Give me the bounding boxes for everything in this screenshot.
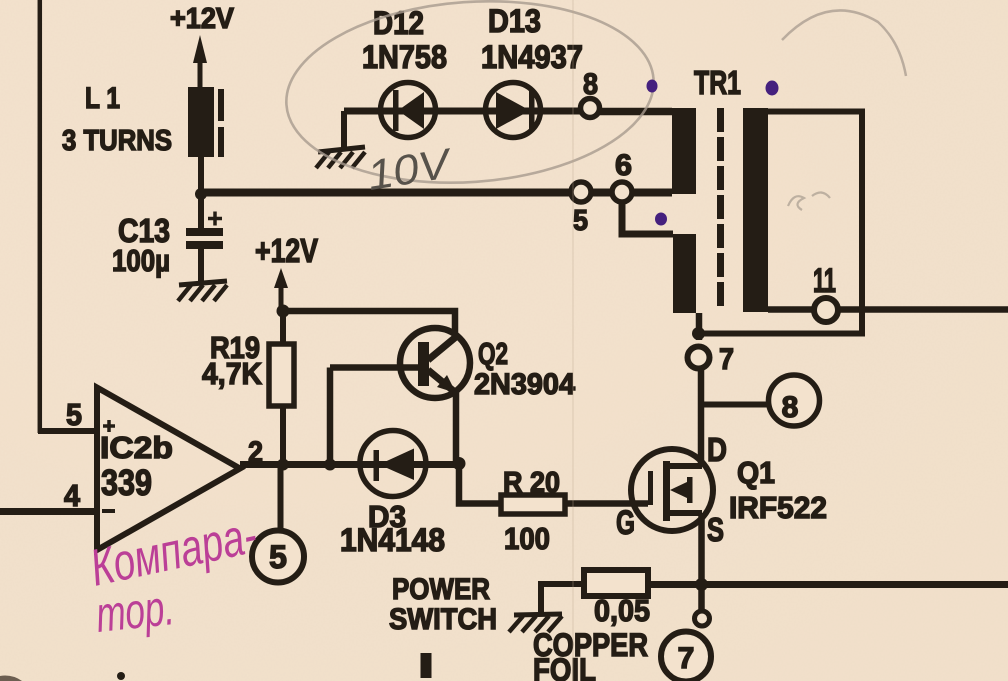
wire: node 6 step down bbox=[622, 202, 673, 234]
svg-text:5: 5 bbox=[66, 397, 82, 432]
node: Q2 base branch junction bbox=[324, 459, 336, 471]
svg-text:4,7K: 4,7K bbox=[202, 356, 263, 391]
svg-text:7: 7 bbox=[678, 642, 695, 675]
wire: base branch vertical bbox=[327, 368, 334, 465]
wire: Q2 base lead bbox=[330, 364, 420, 371]
switch tick mark bbox=[421, 653, 432, 678]
wire: junction down to bubble 5 bbox=[278, 464, 284, 531]
MOSFET Q1 circle bbox=[631, 449, 713, 531]
svg-text:5: 5 bbox=[269, 539, 287, 575]
svg-text:7: 7 bbox=[719, 343, 734, 376]
diode D12 triangle bbox=[398, 92, 424, 129]
svg-text:2: 2 bbox=[248, 436, 263, 469]
wire: Q2 emitter vertical bbox=[453, 391, 460, 463]
wire: lead to circled 8 bbox=[701, 402, 769, 408]
MOSFET Q1 gate bar bbox=[648, 471, 653, 505]
wire: diode chain horizontal bbox=[344, 108, 580, 115]
wire: elbow to ground bbox=[341, 111, 347, 150]
purple dot lower bbox=[655, 213, 667, 226]
pin bubble 7 bbox=[661, 632, 711, 681]
op-amp plus mark bbox=[103, 420, 115, 432]
MOSFET Q1 source lead inside bbox=[670, 510, 702, 516]
transformer TR1 core dashed line bbox=[717, 108, 724, 311]
svg-text:G: G bbox=[616, 504, 635, 542]
pencil ellipse around diodes bbox=[280, 0, 660, 195]
wire: L1 to junction bbox=[198, 157, 204, 196]
stray dot bottom left bbox=[117, 672, 125, 680]
wire: source vertical bbox=[698, 513, 705, 611]
corner smudge bbox=[0, 676, 22, 681]
svg-text:FOIL: FOIL bbox=[533, 652, 596, 681]
node: L1/C13 junction bbox=[195, 188, 207, 200]
node 7 terminal bbox=[688, 347, 710, 369]
wire: long horizontal to transformer bbox=[201, 189, 672, 197]
transformer TR1 primary top bar bbox=[672, 108, 696, 194]
diode D13 cathode bar bbox=[529, 90, 535, 131]
svg-text:1N758: 1N758 bbox=[362, 39, 447, 75]
op-amp U IC2b triangle bbox=[97, 388, 240, 551]
node: source junction bbox=[695, 578, 708, 591]
svg-text:D13: D13 bbox=[488, 3, 541, 39]
pin bubble 8 bbox=[769, 375, 820, 426]
power +12V arrow (middle) bbox=[279, 285, 284, 311]
svg-text:POWER: POWER bbox=[392, 573, 490, 606]
svg-text:IC2b: IC2b bbox=[100, 430, 173, 465]
wire: R19 lower lead bbox=[280, 406, 286, 462]
wire: op-amp output bbox=[240, 461, 459, 468]
op-amp minus mark bbox=[102, 509, 115, 513]
node 11 terminal bbox=[814, 298, 838, 322]
svg-text:8: 8 bbox=[782, 391, 799, 424]
inductor L1 core dashes bbox=[218, 89, 224, 121]
svg-text:L 1: L 1 bbox=[85, 82, 120, 115]
purple dot right bbox=[766, 81, 779, 96]
transistor Q2 base bar bbox=[418, 342, 429, 386]
svg-text:Q1: Q1 bbox=[737, 455, 775, 490]
wire: drain vertical from node 7 bbox=[698, 368, 705, 466]
svg-text:0,05: 0,05 bbox=[594, 593, 650, 628]
svg-text:4: 4 bbox=[64, 478, 81, 513]
purple dot left bbox=[647, 80, 658, 93]
node 8 terminal bbox=[581, 99, 600, 118]
svg-text:D12: D12 bbox=[373, 5, 424, 41]
node: D3/R20/emitter junction bbox=[453, 457, 466, 470]
ground: copper foil bbox=[509, 614, 562, 632]
svg-text:1N4937: 1N4937 bbox=[481, 39, 583, 75]
svg-text:R 20: R 20 bbox=[503, 467, 560, 499]
pin bubble 5 bbox=[252, 531, 304, 583]
diode D12 cathode bar bbox=[393, 90, 399, 131]
MOSFET Q1 body bar bbox=[687, 477, 693, 503]
wire: copper foil left lead bbox=[541, 584, 584, 613]
svg-text:100µ: 100µ bbox=[112, 243, 170, 278]
svg-text:8: 8 bbox=[583, 68, 598, 101]
capacitor C13 bottom plate bbox=[186, 241, 223, 249]
svg-text:+12V: +12V bbox=[255, 232, 318, 269]
diode D13 circle bbox=[486, 83, 541, 138]
pencil curve top right bbox=[782, 10, 906, 76]
svg-text:+12V: +12V bbox=[170, 3, 235, 35]
wire: secondary loop right bbox=[699, 112, 862, 334]
resistor 0.05 copper foil bbox=[584, 570, 648, 596]
svg-text:3 TURNS: 3 TURNS bbox=[62, 125, 172, 157]
wire: junction to C13 bbox=[198, 196, 204, 229]
capacitor C13 plus mark bbox=[208, 212, 222, 226]
power +12V arrow (top) bbox=[198, 60, 203, 88]
ground: C13 bbox=[178, 281, 227, 301]
wire: node 8 to transformer bbox=[599, 108, 672, 116]
capacitor C13 top plate bbox=[186, 228, 223, 236]
MOSFET Q1 body arrow bbox=[670, 482, 688, 499]
diode D13 triangle bbox=[496, 92, 530, 129]
resistor R20 bbox=[501, 495, 565, 514]
node: transformer bottom junction bbox=[692, 327, 705, 340]
node 5 terminal bbox=[571, 182, 591, 202]
transformer TR1 primary bottom bar bbox=[673, 234, 696, 313]
MOSFET Q1 drain lead inside bbox=[670, 463, 702, 469]
diode D12 circle bbox=[381, 83, 436, 138]
wire: R19 upper lead bbox=[280, 311, 286, 344]
wire: op-amp - input from left edge bbox=[0, 508, 97, 515]
wire: C13 to ground bbox=[198, 249, 204, 282]
wire: primary bottom to junction bbox=[696, 313, 703, 340]
svg-text:D: D bbox=[707, 431, 727, 468]
svg-text:IRF522: IRF522 bbox=[729, 490, 827, 525]
node: +12V junction bbox=[277, 305, 290, 318]
svg-text:S: S bbox=[707, 511, 724, 548]
MOSFET Q1 channel bar bbox=[663, 461, 670, 521]
diode D3 cathode bar bbox=[374, 450, 380, 481]
svg-text:TR1: TR1 bbox=[694, 64, 741, 101]
svg-text:339: 339 bbox=[101, 462, 152, 503]
node: open terminal below junction bbox=[695, 611, 710, 626]
svg-text:SWITCH: SWITCH bbox=[389, 603, 497, 636]
node: output junction to R19 bbox=[277, 459, 289, 471]
transformer TR1 secondary bar bbox=[743, 108, 768, 312]
svg-text:5: 5 bbox=[573, 205, 588, 237]
paper crease vertical bbox=[572, 0, 574, 681]
transistor Q2 emitter diagonal bbox=[428, 370, 456, 393]
svg-text:Q2: Q2 bbox=[478, 336, 508, 371]
pencil squiggle inside loop bbox=[788, 192, 830, 210]
svg-text:6: 6 bbox=[615, 149, 632, 182]
transistor Q2 collector diagonal bbox=[428, 336, 457, 360]
wire: junction down to R20 bbox=[459, 463, 501, 504]
inductor L1 body bbox=[188, 87, 214, 157]
svg-text:1N4148: 1N4148 bbox=[340, 522, 445, 558]
wire: op-amp + input bbox=[38, 428, 97, 434]
wire: +12V junction to Q2 collector bbox=[283, 311, 455, 338]
svg-text:тор.: тор. bbox=[93, 579, 176, 643]
wire: R20 to gate bbox=[565, 500, 648, 507]
wire: secondary bottom to right edge bbox=[768, 306, 1008, 313]
transistor Q2 emitter arrow bbox=[437, 375, 456, 393]
resistor R19 bbox=[269, 344, 294, 406]
svg-text:100: 100 bbox=[504, 521, 550, 556]
diode D3 triangle bbox=[379, 449, 414, 481]
diode D3 circle bbox=[360, 431, 426, 497]
wire: left frame vertical bbox=[38, 0, 43, 433]
wire: main bottom horizontal bbox=[648, 581, 1008, 588]
node 6 terminal bbox=[612, 182, 632, 202]
svg-text:11: 11 bbox=[813, 262, 836, 300]
svg-text:2N3904: 2N3904 bbox=[474, 368, 575, 401]
ground: diode chain bbox=[316, 147, 365, 168]
transistor Q2 circle bbox=[400, 328, 470, 398]
